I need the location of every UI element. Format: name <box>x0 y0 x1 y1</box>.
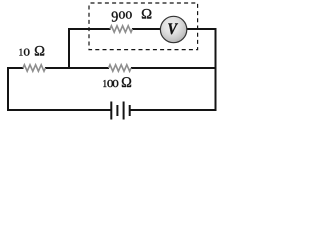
wire: bottom left to battery <box>7 109 112 111</box>
wire: middle row, R 10 to R 100 (through junction) <box>45 67 109 69</box>
label R1 omega symbol <box>35 46 44 56</box>
battery B1 plate long 1 <box>110 102 112 120</box>
label R2 omega symbol <box>122 77 131 87</box>
battery B1 plate short 2 <box>129 105 131 116</box>
wire: branch vertical at junction up to voltmeter row <box>68 28 70 69</box>
wire: top row, branch corner into dashed box to R 900 <box>68 28 111 30</box>
label R3 omega symbol <box>142 9 151 19</box>
battery B1 plate long 2 <box>123 102 125 120</box>
label R3 value 900 ohm <box>112 11 118 21</box>
dashed voltmeter enclosure box <box>89 3 198 50</box>
resistor R3 900 ohm zigzag (voltmeter internal resistance) <box>110 26 132 32</box>
voltmeter U1 circle body <box>160 16 186 42</box>
resistor R2 100 ohm zigzag <box>109 65 131 71</box>
wire: right vertical side <box>215 28 217 111</box>
wire: top row, R 900 to voltmeter <box>132 28 162 30</box>
wire: middle row, R 100 to right side <box>131 67 217 69</box>
voltmeter U1 letter V <box>168 23 178 34</box>
wire: left vertical side <box>7 67 9 111</box>
wire: middle row, left lead to R 10 <box>7 67 24 69</box>
label R2 value 100 ohm <box>103 80 106 87</box>
wire: top row, voltmeter to right side <box>186 28 217 30</box>
battery B1 plate short 1 <box>116 105 118 116</box>
wire: battery to bottom right <box>130 109 217 111</box>
label R1 value 10 ohm <box>19 49 22 56</box>
resistor R1 10 ohm zigzag <box>23 65 45 71</box>
